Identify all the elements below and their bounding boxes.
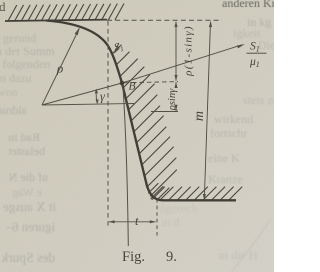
- label m: [192, 111, 207, 121]
- dashed vertical reference (right of t): [156, 199, 158, 236]
- radius arrow rho: [42, 29, 79, 105]
- label rho(1-sin gamma): [183, 25, 195, 77]
- angle gamma double arrow: [96, 90, 97, 103]
- node B (contact point): [120, 81, 125, 86]
- dimension line rho(1-sin gamma): [175, 22, 177, 81]
- dashed extension of tread line: [107, 19, 222, 21]
- dimension line rho-sin-gamma: [175, 82, 177, 87]
- thin reference line from B down to flange tip level: [123, 84, 129, 246]
- dimension line m (flange height): [204, 22, 210, 200]
- hatch flank: [112, 45, 121, 54]
- dimension line t (flange thickness): [109, 221, 156, 223]
- dashed vertical reference (left of t): [107, 21, 109, 228]
- wheel tread top line: [5, 20, 107, 21]
- hatch top: [8, 5, 17, 21]
- flange profile: fillet arc, flank, tip radius, bottom line: [46, 21, 236, 201]
- horizontal reference line from vertex: [42, 104, 134, 106]
- force direction line through B with arrow S1/mu1: [42, 45, 242, 105]
- label rho sin gamma: [167, 88, 178, 111]
- hatch bottom: [152, 187, 165, 200]
- force arrow S1 at contact point: [115, 43, 119, 52]
- reference tick for rho-sin-gamma dimension: [151, 111, 178, 113]
- label S1: [113, 41, 125, 55]
- dashed horizontal through B: [125, 82, 179, 83]
- labels group: [56, 25, 267, 228]
